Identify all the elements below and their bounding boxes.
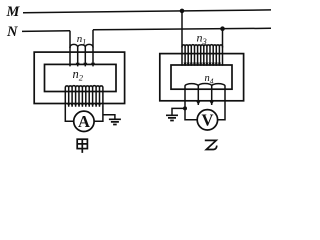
- wire: n1 left lead from line N: [69, 31, 71, 48]
- wire: n4 left lead down to voltmeter: [185, 105, 197, 120]
- junction dot on line N (to n3): [220, 26, 225, 31]
- ammeter A: [74, 111, 94, 131]
- transformer T2 core (iron core, outer + inner rectangle): [160, 54, 244, 101]
- svg-text:V: V: [201, 110, 213, 129]
- ground G2 (earth symbol left of voltmeter): [166, 115, 178, 120]
- voltmeter V: [197, 110, 217, 130]
- primary winding n1 (3 turns, on top limb, in series with line N): [70, 44, 95, 66]
- wire: n2 left lead down to ammeter: [65, 107, 73, 122]
- wire: n1 right lead rejoining line N: [92, 30, 94, 48]
- label: transformer jia (Chinese char, drawn): [77, 139, 87, 153]
- primary winding n3 (many turns, on top limb, across M-N): [182, 45, 223, 66]
- wire: n3 right lead from line N: [222, 29, 224, 48]
- ground G1 (earth symbol beside ammeter): [109, 119, 121, 124]
- svg-text:n3: n3: [197, 31, 207, 47]
- transformer T1 core (iron core, outer + inner rectangle): [34, 52, 124, 103]
- wire: line M: [23, 10, 271, 13]
- svg-text:M: M: [6, 4, 21, 20]
- wire: line N left segment (to primary n1): [22, 30, 70, 33]
- svg-text:n1: n1: [77, 33, 87, 46]
- wire: ground branch of n4 left lead: [172, 108, 185, 115]
- wire: n4 right lead from voltmeter up to coil: [218, 105, 225, 120]
- svg-text:A: A: [78, 112, 90, 131]
- junction dot on line M (to n3): [180, 9, 185, 14]
- svg-text:n4: n4: [205, 73, 214, 85]
- secondary winding n4 (3 turns, on bottom limb): [185, 83, 225, 105]
- svg-text:n2: n2: [73, 67, 84, 83]
- svg-text:N: N: [6, 24, 18, 40]
- wire: n2 right lead from ammeter up to coil: [94, 107, 103, 122]
- wire: line N right segment (n1 in series): [93, 28, 271, 30]
- wire: ground tap off n2 right lead: [103, 115, 115, 119]
- wire: n3 left lead from line M (crosses line N): [181, 11, 183, 48]
- secondary winding n2 (many turns, on bottom limb): [65, 86, 103, 107]
- junction dot on n4 left lead (ground branch): [183, 106, 187, 110]
- label: transformer yi (Chinese char, drawn): [205, 140, 217, 149]
